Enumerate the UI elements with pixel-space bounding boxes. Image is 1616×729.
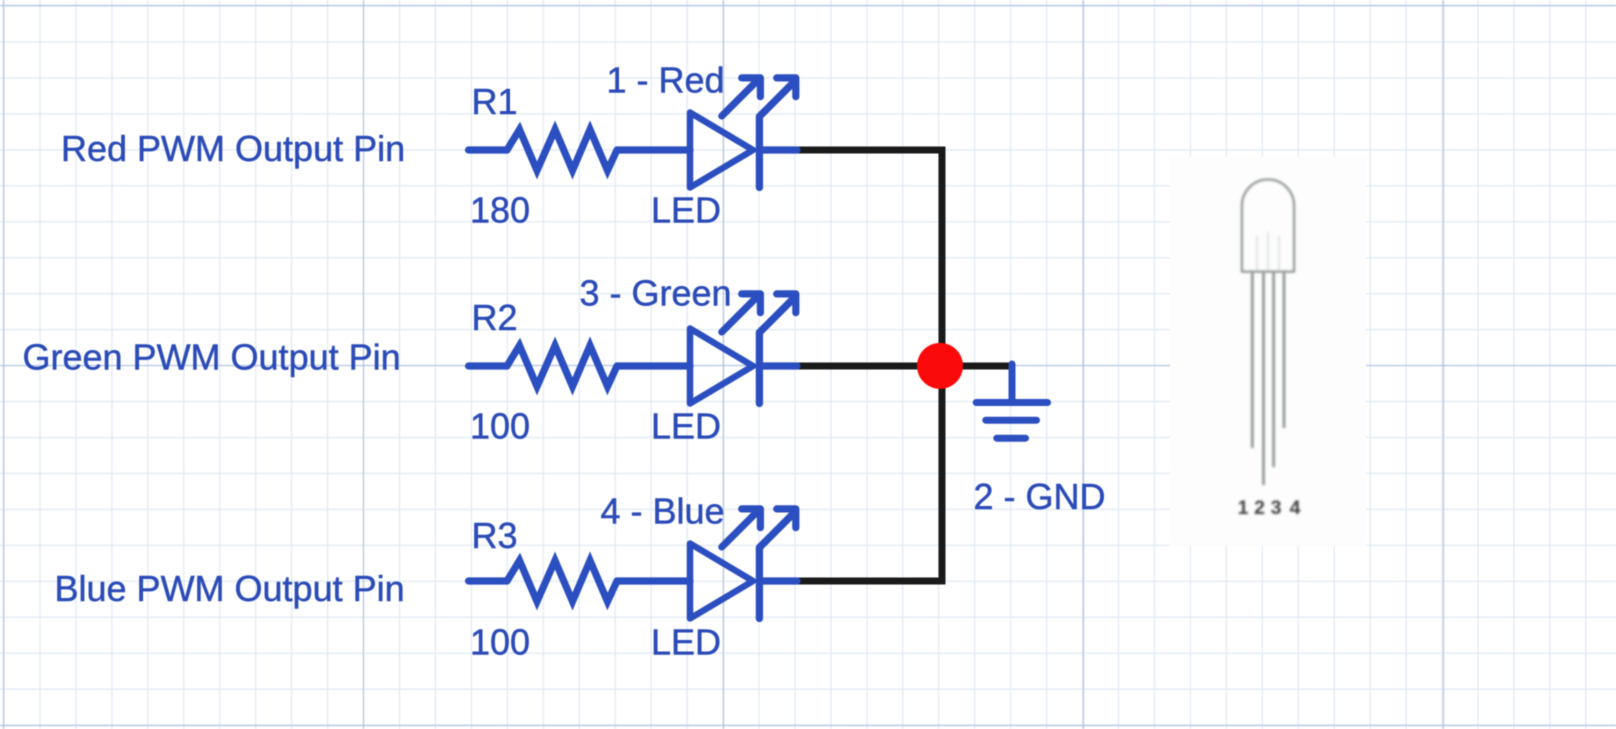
ground bar 2 (986, 417, 1037, 424)
internal lead reflections (1257, 232, 1279, 270)
black wire: top row to bus to bottom row (797, 150, 942, 581)
LED row 2 (Green) (469, 294, 798, 404)
svg-text:3 - Green: 3 - Green (580, 272, 732, 313)
junction node (red dot) (917, 343, 963, 389)
ground symbol (976, 364, 1047, 438)
svg-text:1: 1 (1238, 497, 1249, 519)
svg-text:100: 100 (470, 621, 530, 662)
svg-text:Green PWM Output Pin: Green PWM Output Pin (23, 337, 401, 378)
black wire: middle row to ground stub (797, 363, 1010, 370)
RGB LED photo (1238, 180, 1301, 519)
svg-text:180: 180 (470, 189, 530, 230)
svg-text:Blue PWM Output Pin: Blue PWM Output Pin (55, 568, 405, 609)
ground bar 1 (976, 399, 1047, 406)
ground bar 3 (997, 435, 1026, 442)
photo white backdrop (1170, 157, 1366, 546)
leg pin 4 (1283, 273, 1286, 428)
svg-text:2: 2 (1254, 497, 1265, 519)
svg-text:1 - Red: 1 - Red (607, 60, 725, 101)
LED legs (1252, 273, 1284, 485)
ground stub wire (1009, 364, 1016, 403)
svg-text:2 - GND: 2 - GND (974, 476, 1106, 517)
svg-text:R3: R3 (472, 515, 518, 556)
svg-text:R1: R1 (472, 81, 518, 122)
pin numbers 1 2 3 4 (1238, 497, 1301, 519)
svg-text:LED: LED (651, 405, 721, 446)
leg pin 3 (1272, 273, 1275, 467)
svg-text:LED: LED (651, 621, 721, 662)
LED row 1 (Red) (469, 78, 798, 188)
svg-text:R2: R2 (472, 297, 518, 338)
svg-text:4: 4 (1290, 497, 1301, 519)
svg-text:LED: LED (651, 189, 721, 230)
LED bulb body (1242, 180, 1294, 272)
svg-text:3: 3 (1271, 497, 1282, 519)
leg pin 2 (1262, 273, 1265, 485)
svg-text:4 - Blue: 4 - Blue (601, 490, 725, 531)
leg pin 1 (1251, 273, 1254, 448)
LED row 3 (Blue) (469, 509, 798, 619)
svg-text:Red PWM Output Pin: Red PWM Output Pin (61, 128, 405, 169)
svg-text:100: 100 (470, 405, 530, 446)
